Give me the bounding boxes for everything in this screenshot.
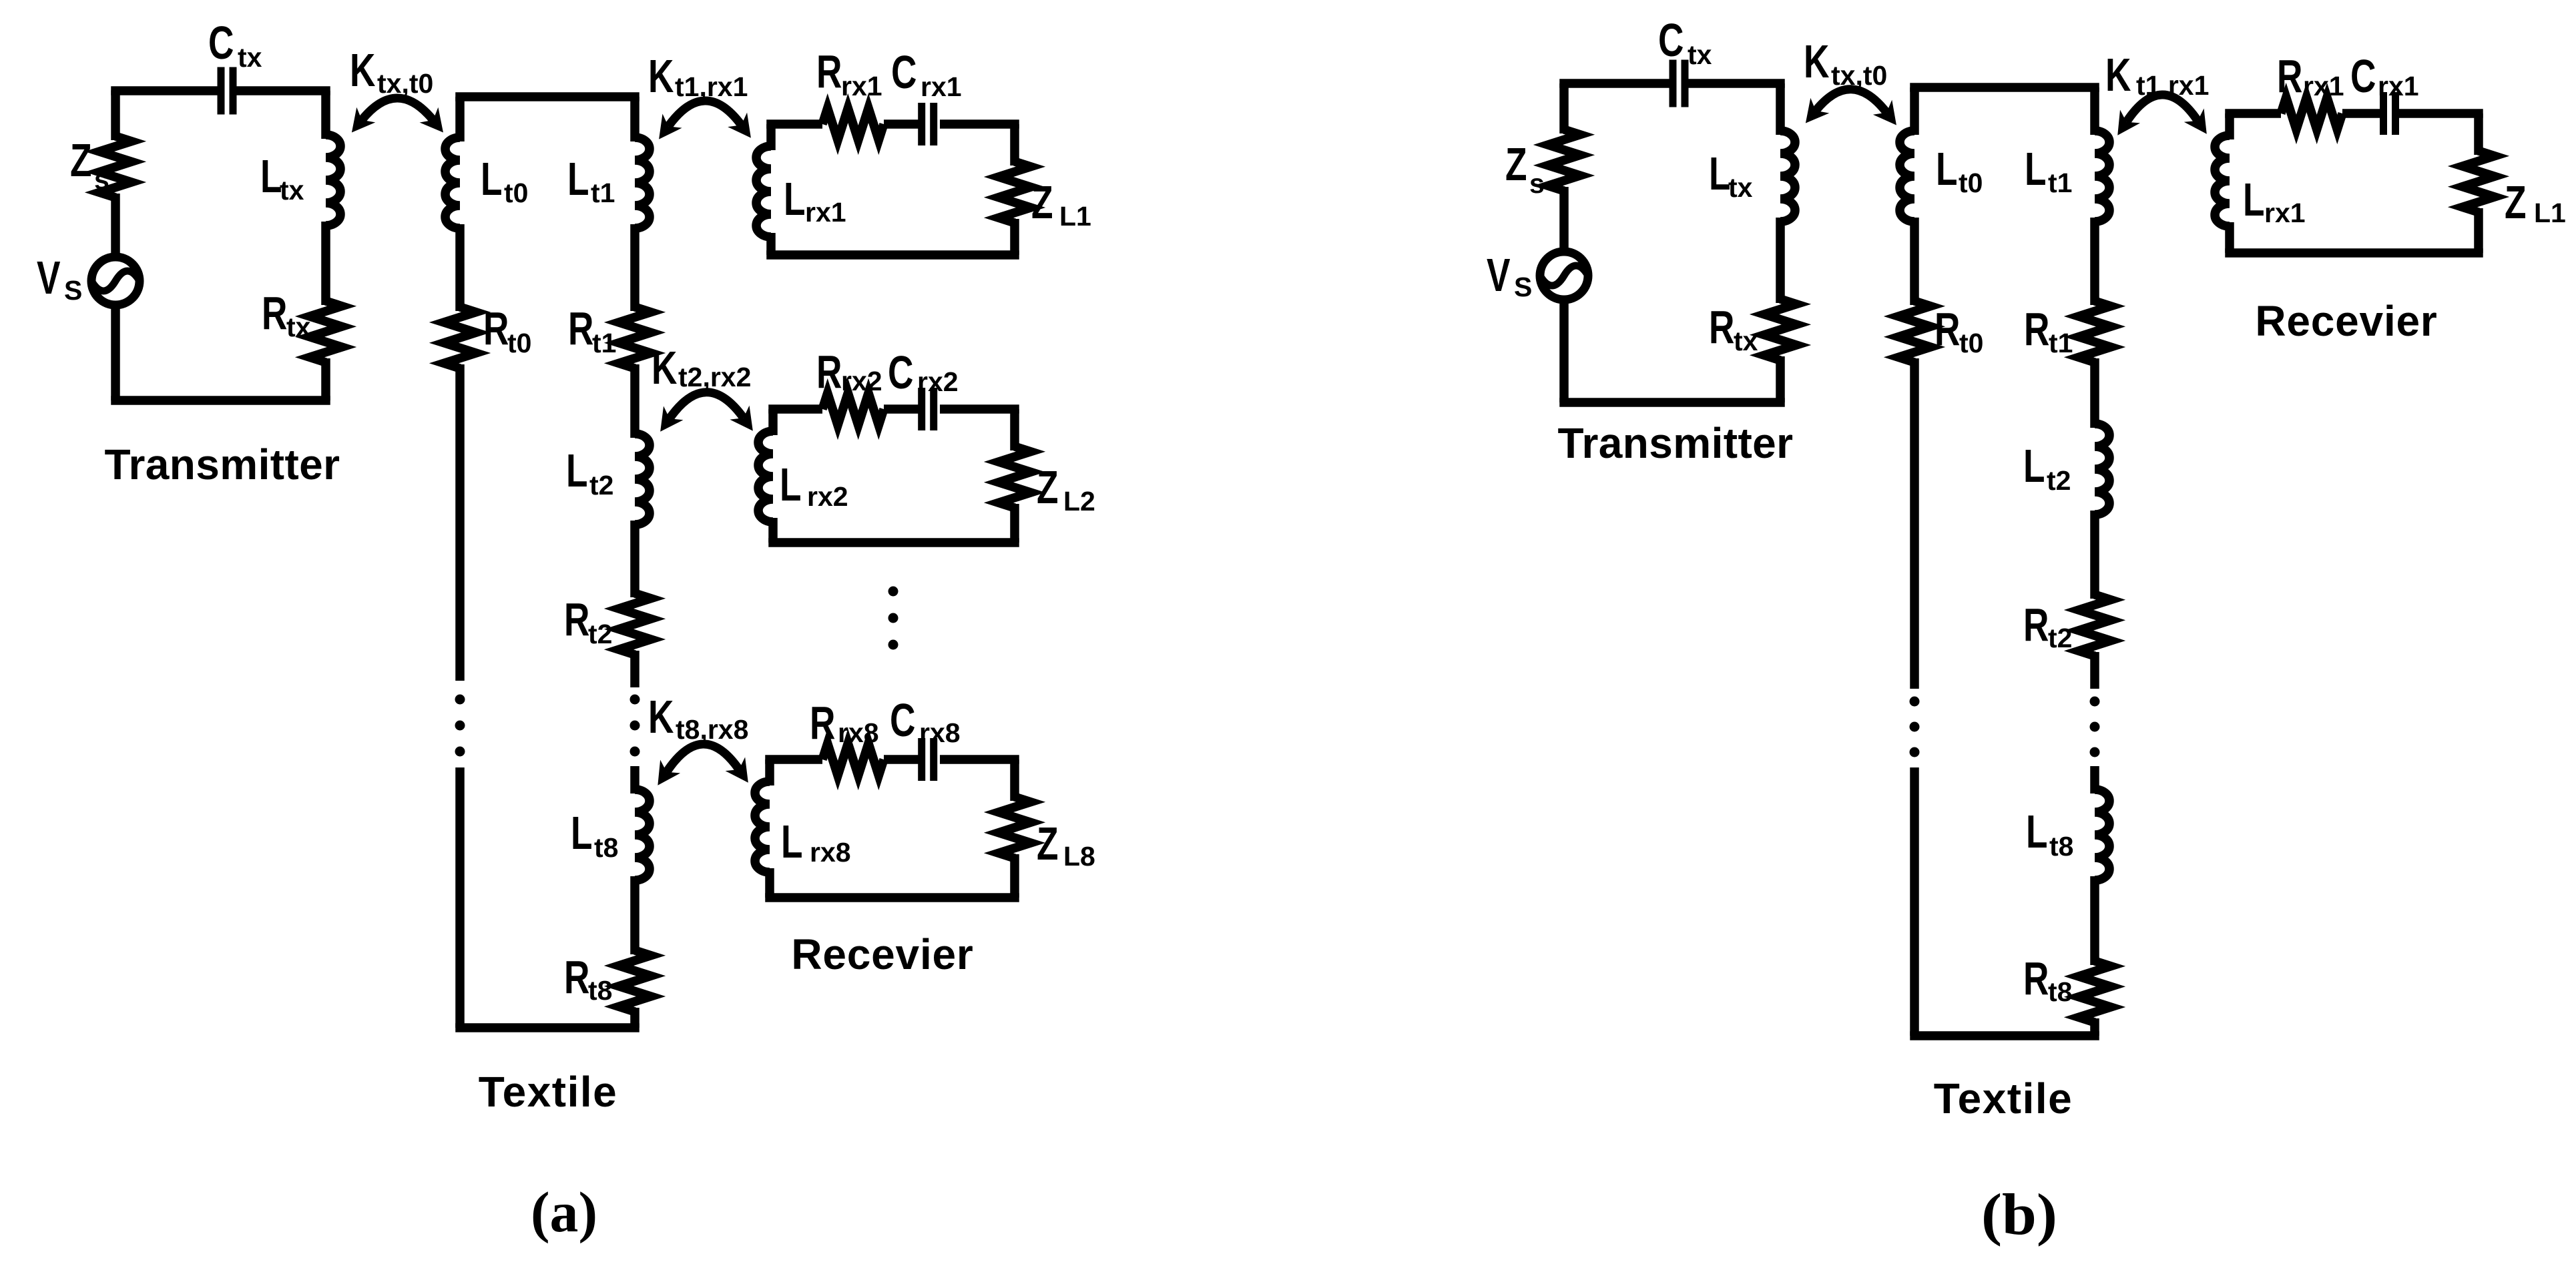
- svg-text:K: K: [648, 691, 674, 743]
- svg-text:t0: t0: [1959, 328, 1983, 358]
- svg-text:Textile: Textile: [479, 1068, 618, 1116]
- svg-text:Z: Z: [1037, 462, 1058, 514]
- svg-text:C: C: [888, 347, 913, 399]
- svg-text:s: s: [1529, 168, 1545, 199]
- svg-text:K: K: [2105, 49, 2131, 101]
- svg-text:tx,t0: tx,t0: [377, 68, 433, 99]
- svg-text:V: V: [1487, 250, 1511, 302]
- svg-text:rx1: rx1: [2264, 198, 2306, 228]
- svg-text:t0: t0: [507, 328, 531, 358]
- svg-text:L: L: [780, 459, 801, 511]
- svg-text:L: L: [481, 153, 502, 206]
- svg-text:t8,rx8: t8,rx8: [676, 714, 748, 745]
- svg-text:R: R: [810, 697, 835, 749]
- svg-text:S: S: [1514, 272, 1532, 302]
- svg-text:L: L: [784, 174, 805, 226]
- svg-text:(a): (a): [531, 1180, 597, 1244]
- svg-text:s: s: [94, 164, 109, 195]
- svg-text:tx: tx: [1734, 326, 1758, 356]
- svg-text:(b): (b): [1981, 1183, 2057, 1247]
- svg-text:rx1: rx1: [805, 197, 846, 228]
- svg-text:rx2: rx2: [841, 366, 882, 396]
- svg-text:rx1: rx1: [2378, 71, 2419, 101]
- svg-text:rx1: rx1: [2303, 71, 2344, 101]
- svg-text:t2,rx2: t2,rx2: [678, 362, 751, 392]
- svg-text:rx2: rx2: [807, 481, 848, 512]
- svg-text:L1: L1: [2534, 198, 2566, 228]
- svg-text:C: C: [891, 47, 917, 99]
- svg-text:Z: Z: [1037, 818, 1058, 870]
- svg-text:R: R: [564, 594, 589, 646]
- svg-text:R: R: [2023, 953, 2049, 1005]
- svg-text:L: L: [2023, 440, 2045, 493]
- svg-text:Recevier: Recevier: [2255, 297, 2437, 345]
- svg-text:L: L: [567, 153, 589, 206]
- svg-text:L: L: [781, 816, 802, 868]
- svg-text:t2: t2: [588, 619, 612, 649]
- svg-text:R: R: [568, 303, 593, 355]
- svg-text:Transmitter: Transmitter: [105, 440, 340, 489]
- svg-text:L1: L1: [1059, 201, 1091, 232]
- svg-text:tx: tx: [1728, 172, 1753, 203]
- svg-text:t8: t8: [594, 832, 618, 863]
- svg-text:t1: t1: [2049, 328, 2073, 358]
- svg-text:R: R: [1709, 302, 1734, 354]
- svg-text:t1: t1: [591, 178, 615, 208]
- svg-text:t2: t2: [2047, 465, 2071, 496]
- svg-text:R: R: [483, 303, 509, 355]
- svg-text:Textile: Textile: [1934, 1074, 2073, 1123]
- svg-text:R: R: [262, 288, 287, 340]
- svg-text:C: C: [890, 695, 915, 747]
- svg-text:L8: L8: [1063, 841, 1095, 872]
- svg-text:C: C: [1658, 15, 1684, 67]
- svg-text:R: R: [2277, 51, 2302, 103]
- svg-text:Z: Z: [1505, 139, 1527, 191]
- svg-text:L: L: [571, 808, 592, 860]
- svg-text:t0: t0: [504, 178, 528, 208]
- svg-text:t2: t2: [589, 470, 613, 501]
- svg-text:K: K: [1804, 36, 1830, 88]
- svg-text:tx: tx: [280, 175, 304, 206]
- svg-text:Z: Z: [1031, 177, 1053, 229]
- svg-text:R: R: [816, 346, 842, 398]
- svg-text:t1: t1: [2048, 168, 2072, 198]
- svg-text:R: R: [816, 46, 842, 98]
- svg-text:t2: t2: [2048, 623, 2072, 653]
- svg-text:rx8: rx8: [810, 837, 851, 868]
- svg-text:R: R: [564, 952, 589, 1004]
- svg-text:L2: L2: [1063, 486, 1095, 517]
- svg-text:tx: tx: [238, 42, 262, 73]
- svg-text:C: C: [208, 17, 234, 69]
- svg-text:R: R: [2023, 599, 2049, 651]
- svg-text:Transmitter: Transmitter: [1558, 419, 1794, 467]
- svg-text:K: K: [350, 45, 376, 97]
- svg-text:tx: tx: [286, 312, 311, 342]
- svg-text:t8: t8: [2048, 976, 2072, 1007]
- svg-text:t1: t1: [592, 328, 616, 358]
- svg-text:L: L: [2026, 806, 2047, 858]
- svg-text:K: K: [648, 51, 674, 103]
- svg-text:S: S: [64, 275, 82, 306]
- svg-text:C: C: [2350, 51, 2376, 103]
- svg-text:rx8: rx8: [838, 717, 879, 748]
- svg-text:rx8: rx8: [919, 717, 961, 748]
- svg-text:L: L: [2243, 174, 2264, 226]
- svg-text:L: L: [2025, 143, 2046, 196]
- svg-text:R: R: [2024, 304, 2049, 356]
- svg-text:rx1: rx1: [841, 71, 882, 101]
- svg-text:Recevier: Recevier: [791, 930, 973, 978]
- svg-text:tx: tx: [1688, 39, 1712, 70]
- svg-text:V: V: [37, 252, 61, 304]
- svg-text:R: R: [1935, 304, 1960, 356]
- svg-text:t8: t8: [588, 975, 612, 1006]
- svg-text:Z: Z: [2505, 177, 2526, 229]
- svg-text:rx1: rx1: [921, 71, 962, 102]
- svg-text:K: K: [652, 342, 678, 394]
- svg-text:rx2: rx2: [917, 366, 959, 397]
- svg-text:L: L: [1936, 143, 1957, 196]
- svg-text:t8: t8: [2049, 831, 2073, 862]
- svg-text:Z: Z: [70, 135, 91, 187]
- svg-text:L: L: [260, 151, 282, 203]
- svg-text:L: L: [1709, 148, 1730, 200]
- svg-text:t0: t0: [1959, 168, 1983, 198]
- svg-text:L: L: [566, 445, 587, 497]
